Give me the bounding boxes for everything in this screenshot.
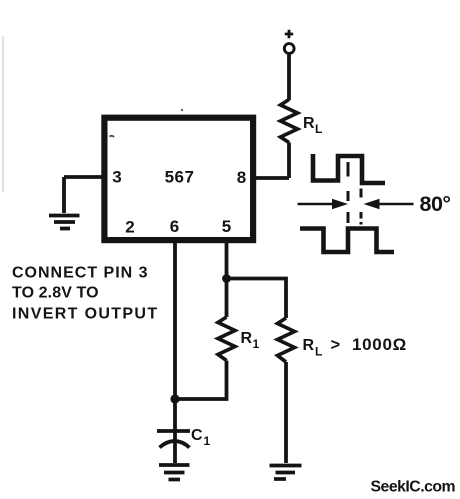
dashed marker line left	[347, 162, 350, 223]
svg-text:R: R	[303, 337, 315, 354]
wire RL load to ground	[284, 362, 288, 463]
svg-text:TO 2.8V TO: TO 2.8V TO	[12, 285, 99, 302]
label RL > 1000 ohm	[303, 335, 407, 359]
svg-text:R: R	[303, 115, 315, 132]
svg-text:5: 5	[222, 217, 231, 236]
wire C1 to ground	[173, 448, 177, 463]
svg-text:567: 567	[165, 168, 195, 187]
svg-text:>: >	[331, 336, 341, 354]
V+ terminal plus sign	[285, 30, 293, 38]
svg-text:1: 1	[204, 434, 211, 448]
V+ terminal circle	[284, 44, 294, 54]
svg-text:6: 6	[170, 217, 179, 236]
resistor RL load	[278, 318, 295, 362]
scan speckle above box	[181, 109, 183, 111]
label RL	[303, 115, 322, 136]
op-amp U1 567 IC box	[104, 118, 253, 240]
dashed marker line right	[360, 189, 363, 225]
svg-text:3: 3	[112, 168, 121, 187]
svg-text:CONNECT PIN 3: CONNECT PIN 3	[12, 265, 149, 282]
resistor R1	[218, 317, 235, 361]
svg-text:L: L	[315, 122, 322, 136]
label R1	[241, 330, 260, 351]
svg-text:L: L	[315, 345, 322, 359]
wire node to RL branch	[227, 279, 287, 319]
wire node down to R1	[225, 279, 229, 318]
note text	[12, 265, 158, 323]
capacitor C1 top plate	[157, 429, 190, 433]
label C1	[191, 427, 211, 448]
svg-text:8: 8	[237, 168, 246, 187]
ground under C1	[159, 465, 190, 480]
svg-text:1000Ω: 1000Ω	[352, 335, 407, 354]
wire pin 5 down	[225, 243, 229, 279]
capacitor C1 curved plate	[160, 441, 190, 448]
wire pin 3 to ground	[64, 177, 102, 213]
arrow left	[298, 199, 349, 209]
lower waveform	[300, 229, 394, 253]
arrow right	[364, 199, 414, 209]
wire RL to pin 8	[256, 143, 289, 179]
svg-text:80°: 80°	[420, 192, 451, 216]
ground under pin 3	[49, 216, 80, 229]
svg-text:INVERT OUTPUT: INVERT OUTPUT	[12, 306, 158, 323]
upper waveform	[313, 154, 385, 183]
scan artifact left edge	[2, 36, 4, 192]
svg-text:1: 1	[253, 337, 260, 351]
scan speckle inside box	[110, 136, 115, 137]
svg-text:SeekIC.com: SeekIC.com	[371, 479, 456, 496]
junction node pin5	[222, 274, 231, 283]
ground under RL load	[270, 466, 302, 480]
svg-text:C: C	[191, 427, 203, 444]
svg-text:2: 2	[125, 218, 134, 237]
wire pin 6 down	[173, 243, 177, 448]
junction node C1	[170, 394, 179, 403]
wire V+ to RL	[287, 54, 291, 100]
svg-text:R: R	[241, 330, 253, 347]
resistor RL (top)	[281, 100, 298, 143]
wire R1 bottom to junction	[175, 361, 227, 400]
